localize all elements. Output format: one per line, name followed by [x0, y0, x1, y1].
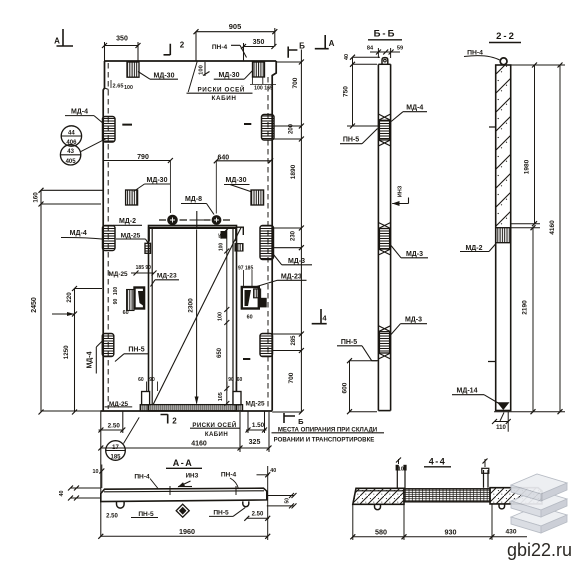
svg-text:МД-25: МД-25 [109, 401, 129, 408]
svg-text:750: 750 [343, 86, 350, 97]
svg-text:90: 90 [149, 377, 155, 383]
svg-text:А-А: А-А [173, 458, 194, 468]
svg-text:350: 350 [116, 36, 128, 43]
svg-text:МД-4: МД-4 [406, 105, 423, 112]
svg-text:МД-2: МД-2 [465, 245, 482, 252]
svg-text:2300: 2300 [188, 298, 195, 313]
svg-text:43: 43 [67, 149, 74, 155]
svg-text:44: 44 [68, 130, 75, 136]
svg-text:А: А [54, 37, 60, 46]
svg-text:230: 230 [291, 230, 297, 241]
svg-text:17: 17 [112, 445, 119, 451]
svg-text:60: 60 [237, 377, 243, 383]
svg-text:185 90: 185 90 [136, 265, 152, 271]
svg-text:700: 700 [288, 372, 295, 383]
svg-text:МД-3: МД-3 [406, 251, 423, 258]
svg-text:МД-25: МД-25 [108, 271, 128, 278]
svg-text:100: 100 [113, 287, 119, 296]
svg-text:ПН-4: ПН-4 [221, 471, 237, 478]
svg-text:Б: Б [299, 42, 305, 51]
svg-text:40: 40 [344, 54, 350, 60]
svg-text:60: 60 [247, 314, 253, 320]
svg-text:МД-23: МД-23 [157, 273, 177, 280]
svg-text:97 185: 97 185 [238, 266, 254, 272]
svg-text:ПН-4: ПН-4 [467, 49, 483, 56]
svg-text:2-2: 2-2 [496, 31, 516, 42]
svg-text:ИНЗ: ИНЗ [398, 185, 404, 197]
svg-text:406: 406 [66, 140, 77, 146]
svg-text:1960: 1960 [179, 527, 195, 536]
svg-text:МД-30: МД-30 [154, 73, 175, 80]
svg-text:1980: 1980 [524, 159, 531, 174]
svg-text:790: 790 [137, 154, 149, 161]
svg-text:100: 100 [124, 85, 133, 91]
svg-text:МД-30: МД-30 [219, 72, 240, 79]
svg-text:ИНЗ: ИНЗ [186, 472, 199, 479]
svg-text:1250: 1250 [63, 345, 70, 359]
svg-text:60: 60 [138, 377, 144, 383]
svg-text:Б-Б: Б-Б [374, 29, 397, 40]
svg-text:ПН-5: ПН-5 [343, 137, 359, 144]
svg-text:4-4: 4-4 [429, 456, 447, 466]
svg-text:ПН-4: ПН-4 [212, 44, 228, 51]
svg-text:РИСКИ ОСЕЙ: РИСКИ ОСЕЙ [198, 85, 246, 94]
svg-text:МД-25: МД-25 [121, 232, 141, 239]
svg-text:580: 580 [375, 527, 387, 536]
svg-text:ПН-5: ПН-5 [138, 511, 154, 518]
svg-text:МД-3: МД-3 [288, 258, 305, 265]
svg-text:2.50: 2.50 [106, 514, 118, 520]
svg-text:2450: 2450 [31, 297, 38, 313]
svg-text:ПН-5: ПН-5 [128, 347, 144, 354]
svg-text:4160: 4160 [191, 440, 207, 447]
svg-text:2190: 2190 [522, 300, 529, 315]
svg-text:МД-23: МД-23 [281, 273, 302, 280]
svg-text:2: 2 [180, 41, 185, 50]
svg-text:100 165: 100 165 [254, 85, 273, 91]
svg-text:2.65: 2.65 [113, 84, 124, 90]
svg-text:325: 325 [249, 439, 261, 446]
svg-text:640: 640 [217, 154, 229, 161]
svg-text:160: 160 [33, 192, 40, 203]
svg-text:РИСКИ ОСЕЙ: РИСКИ ОСЕЙ [192, 421, 236, 429]
svg-text:ПН-4: ПН-4 [134, 473, 150, 480]
svg-text:4160: 4160 [549, 220, 556, 235]
svg-text:45: 45 [219, 233, 225, 239]
svg-text:40: 40 [270, 468, 276, 474]
svg-text:МД-4: МД-4 [71, 109, 88, 116]
svg-text:185: 185 [110, 454, 121, 460]
svg-text:gbi22.ru: gbi22.ru [507, 540, 572, 560]
svg-text:МД-25: МД-25 [245, 401, 265, 408]
svg-text:600: 600 [342, 382, 349, 393]
svg-text:350: 350 [253, 39, 265, 46]
svg-text:А: А [329, 39, 335, 48]
svg-text:930: 930 [445, 527, 457, 536]
svg-text:МЕСТА ОПИРАНИЯ ПРИ СКЛАДИ: МЕСТА ОПИРАНИЯ ПРИ СКЛАДИ [278, 426, 377, 433]
svg-text:110: 110 [496, 425, 506, 431]
svg-text:220: 220 [66, 292, 73, 303]
svg-text:200: 200 [289, 123, 295, 134]
svg-text:МД-30: МД-30 [147, 177, 168, 184]
svg-text:59: 59 [397, 46, 403, 52]
svg-text:84: 84 [367, 46, 374, 52]
svg-text:285: 285 [291, 335, 297, 346]
svg-text:2: 2 [172, 417, 177, 426]
svg-text:ПН-5: ПН-5 [213, 509, 229, 516]
svg-text:405: 405 [66, 159, 77, 165]
svg-text:10: 10 [93, 469, 99, 475]
svg-text:МД-4: МД-4 [87, 351, 94, 368]
svg-text:40: 40 [59, 491, 65, 497]
svg-text:МД-14: МД-14 [457, 388, 478, 395]
svg-text:1890: 1890 [290, 164, 297, 179]
svg-text:50: 50 [285, 498, 291, 504]
svg-text:100: 100 [218, 312, 224, 321]
svg-text:КАБИН: КАБИН [205, 431, 228, 438]
svg-text:90: 90 [228, 377, 234, 383]
svg-text:105: 105 [218, 392, 224, 401]
svg-text:430: 430 [505, 529, 516, 536]
svg-text:МД-3: МД-3 [405, 317, 422, 324]
svg-text:700: 700 [292, 77, 299, 88]
svg-text:Б: Б [298, 417, 304, 426]
svg-text:МД-4: МД-4 [70, 230, 87, 237]
svg-text:100: 100 [219, 243, 225, 252]
svg-text:905: 905 [229, 22, 242, 31]
svg-text:100: 100 [199, 65, 205, 75]
svg-text:10: 10 [398, 466, 404, 472]
svg-text:90: 90 [113, 299, 119, 305]
svg-text:МД-30: МД-30 [226, 177, 247, 184]
svg-text:1.50: 1.50 [252, 422, 265, 429]
svg-text:2.50: 2.50 [108, 422, 121, 429]
svg-text:МД-2: МД-2 [119, 218, 136, 225]
svg-text:КАБИН: КАБИН [212, 95, 237, 102]
svg-text:ПН-5: ПН-5 [341, 339, 357, 346]
svg-text:РОВАНИИ И ТРАНСПОРТИРОВКЕ: РОВАНИИ И ТРАНСПОРТИРОВКЕ [274, 436, 375, 443]
svg-text:МД-8: МД-8 [185, 196, 202, 203]
svg-text:2.50: 2.50 [252, 511, 264, 517]
svg-text:60: 60 [123, 310, 129, 316]
svg-text:650: 650 [217, 347, 223, 358]
